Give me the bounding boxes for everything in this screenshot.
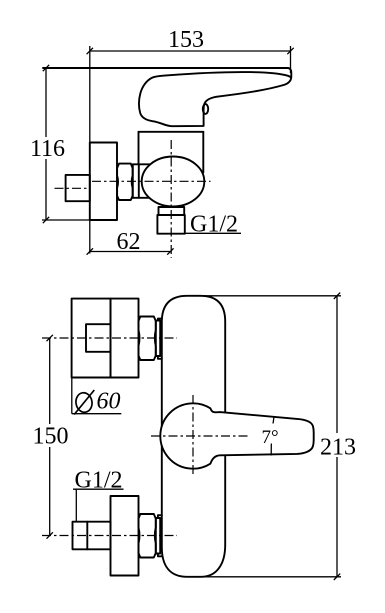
label G1/2 lower leader vertical: [75, 489, 77, 521]
dimension 153 line: [90, 50, 291, 52]
svg-text:60: 60: [97, 389, 121, 415]
union hex nut (side view): [117, 164, 133, 200]
dimension 213 tick bottom: [334, 574, 340, 580]
upper wall flange: [111, 299, 139, 378]
centerline: outlet vertical axis: [170, 140, 172, 258]
lower wall flange: [111, 496, 139, 576]
centerline handle vertical: [192, 395, 194, 477]
outlet ring: [159, 207, 185, 215]
centerline: wall pipe axis: [55, 187, 91, 189]
label diameter 60 symbol slash: [74, 390, 94, 415]
lower collar: [156, 518, 160, 554]
lower body notch bottom: [158, 554, 162, 557]
dimension 116 line upper: [45, 68, 47, 137]
connector collar: [133, 163, 151, 165]
upper inlet outer box: [72, 299, 111, 378]
valve body ball (side view): [142, 157, 205, 207]
label G1/2 lower underline: [73, 488, 124, 490]
dimension 116 tick bottom: [43, 217, 49, 223]
dimension 213 extension bottom: [203, 576, 341, 578]
wall flange (side view): [90, 143, 117, 221]
cartridge housing right edge: [202, 132, 204, 173]
dimension 150 line lower: [49, 447, 51, 536]
svg-text:116: 116: [30, 136, 65, 162]
lower body notch top: [158, 515, 162, 518]
upper inlet pipe: [86, 324, 111, 352]
svg-text:153: 153: [168, 27, 204, 53]
upper union hex nut: [139, 317, 156, 361]
svg-text:G1/2: G1/2: [75, 468, 123, 494]
label diameter 60 symbol circle: [75, 392, 94, 414]
svg-text:213: 213: [320, 435, 356, 461]
dimension 153 tick left: [87, 48, 93, 54]
wall pipe (side view): [66, 175, 90, 201]
dimension 213 extension top: [202, 295, 341, 297]
dimension 62 tick left: [87, 248, 93, 254]
dimension 62 line: [90, 251, 171, 253]
upper body notch top: [158, 319, 162, 321]
dimension 116 bottom extension: [42, 219, 90, 221]
svg-text:G1/2: G1/2: [190, 212, 238, 238]
dimension 116 tick top: [43, 65, 49, 71]
upper body notch bottom: [158, 356, 162, 359]
dimension 150 tick top: [47, 335, 53, 341]
wire: handle top edge and extension line to 116 dim: [43, 67, 288, 69]
centerline handle horizontal: [151, 435, 250, 437]
lower inlet pipe divider: [86, 522, 88, 550]
outlet pipe G1/2: [157, 215, 184, 234]
dimension 213 tick top: [334, 293, 340, 299]
label diameter 60 leader vertical: [71, 378, 73, 414]
lower union hex nut: [139, 514, 156, 558]
wall line / extension above flange: [89, 46, 91, 143]
handle indicator button: [203, 104, 208, 114]
cartridge housing top: [139, 131, 204, 133]
centerline: faucet inlet axis: [92, 180, 211, 182]
dimension 213 line upper: [336, 296, 338, 433]
lower inlet pipe: [73, 522, 111, 550]
svg-text:7°: 7°: [261, 427, 278, 448]
dimension 153 right extension: [290, 46, 292, 73]
label G1/2 outlet leader: [185, 232, 242, 234]
svg-text:150: 150: [33, 424, 69, 450]
dimension 153 tick right: [287, 48, 293, 54]
dimension 150 tick bottom: [47, 532, 53, 538]
faucet body capsule: [162, 296, 225, 577]
7 degree label background: [258, 424, 281, 444]
7 degree taper arc: [271, 417, 274, 455]
dimension 62 tick right: [167, 248, 173, 254]
wall line below flange: [89, 220, 91, 254]
cartridge housing left edge: [138, 132, 140, 165]
upper collar: [156, 321, 160, 357]
dimension 150 line upper: [49, 338, 51, 424]
label diameter 60 underline: [72, 413, 122, 415]
centerline lower inlet: [42, 535, 177, 537]
dimension 213 line lower: [336, 457, 338, 577]
handle circle and lever (front view): [160, 403, 313, 468]
svg-text:62: 62: [117, 229, 141, 255]
dimension 116 line lower: [45, 159, 47, 220]
handle lever (side view): [139, 68, 291, 126]
centerline upper inlet: [42, 337, 177, 339]
